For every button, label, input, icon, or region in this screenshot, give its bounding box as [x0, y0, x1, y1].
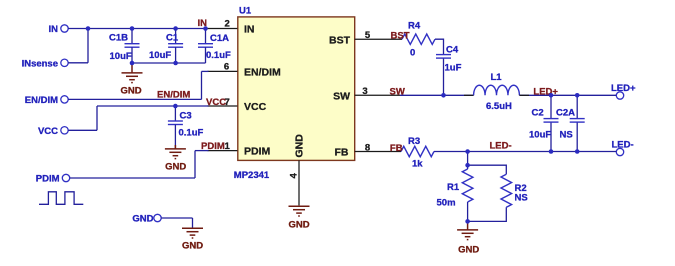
port LED- — [612, 139, 634, 155]
wire EN/DIM to pin 6 — [202, 70, 209, 72]
op-amp U1 — [234, 5, 355, 181]
ground below C1B — [120, 63, 142, 97]
svg-text:C4: C4 — [446, 45, 459, 56]
svg-text:BST: BST — [391, 31, 410, 42]
wire IN port to junction — [68, 28, 88, 30]
svg-text:SW: SW — [333, 90, 350, 102]
pin 8 stub — [355, 151, 401, 153]
ground below C3 — [165, 145, 186, 172]
svg-text:GND: GND — [288, 219, 309, 230]
svg-text:4: 4 — [289, 173, 300, 179]
svg-text:1uF: 1uF — [445, 63, 462, 74]
port PDIM — [36, 174, 70, 185]
svg-text:0.1uF: 0.1uF — [206, 50, 231, 61]
junction node C1A top — [203, 26, 208, 31]
pin 5 stub — [355, 38, 402, 40]
capacitor C1 — [166, 29, 183, 64]
svg-text:BST: BST — [329, 34, 351, 46]
svg-text:C3: C3 — [180, 110, 192, 121]
pulse waveform symbol — [39, 192, 83, 205]
svg-text:EN/DIM: EN/DIM — [157, 90, 190, 101]
svg-text:50m: 50m — [437, 198, 456, 209]
junction node R1 R2 top — [465, 163, 470, 168]
svg-text:PDIM: PDIM — [36, 174, 60, 185]
junction node C1 top — [173, 26, 178, 31]
svg-text:C1B: C1B — [109, 33, 128, 44]
resistor R4 — [402, 21, 435, 45]
capacitor C1A — [198, 29, 229, 64]
svg-text:SW: SW — [390, 87, 405, 98]
wire SW rail to L1 — [400, 94, 474, 96]
inductor L1 — [464, 72, 529, 95]
wire PDIM horizontal — [70, 177, 195, 179]
wire branch to R2 top — [468, 165, 507, 174]
ground below R1 R2 — [457, 221, 479, 255]
wire GND port vertical — [192, 218, 194, 228]
wire R1 bottom lead — [467, 202, 469, 221]
junction node C2 bottom — [549, 149, 554, 154]
svg-text:C2A: C2A — [556, 108, 575, 119]
wire VCC vertical — [96, 106, 98, 130]
capacitor C2A — [556, 108, 585, 123]
svg-text:R4: R4 — [408, 21, 421, 32]
svg-text:VCC: VCC — [38, 126, 58, 137]
pin 3 stub — [355, 94, 400, 96]
svg-text:VCC: VCC — [244, 101, 267, 113]
svg-text:6.5uH: 6.5uH — [486, 101, 512, 112]
port LED+ — [611, 83, 636, 99]
svg-text:0: 0 — [410, 48, 415, 59]
junction node C4 SW — [441, 93, 446, 98]
junction node C1B top — [130, 26, 135, 31]
wire capacitor bottom rail — [132, 62, 206, 64]
wire GND port horizontal — [161, 217, 192, 219]
wire C4 bottom to SW rail — [443, 58, 445, 95]
svg-text:2: 2 — [225, 18, 230, 29]
svg-text:L1: L1 — [491, 72, 503, 83]
resistor R1 — [447, 169, 473, 202]
junction node C2A top — [575, 93, 580, 98]
capacitor C1B — [109, 29, 140, 64]
svg-text:EN/DIM: EN/DIM — [244, 67, 281, 79]
svg-text:GND: GND — [458, 244, 479, 255]
wire PDIM vertical — [194, 151, 196, 178]
pin 1 stub — [208, 150, 238, 152]
pin 6 stub — [208, 70, 238, 72]
svg-text:LED+: LED+ — [533, 87, 558, 98]
port INsense — [22, 59, 69, 70]
svg-text:LED-: LED- — [490, 141, 512, 152]
junction node C1 bottom — [173, 61, 178, 66]
wire L1 to LED+ port — [519, 94, 616, 96]
wire C2A top lead — [576, 95, 578, 118]
wire VCC to pin 7 — [97, 105, 209, 107]
svg-text:C2: C2 — [532, 108, 544, 119]
junction node IN port — [86, 26, 91, 31]
junction node C1B bottom — [130, 61, 135, 66]
svg-text:GND: GND — [132, 214, 153, 225]
svg-text:R1: R1 — [447, 182, 460, 193]
pin 4 stub — [298, 160, 300, 205]
junction node C3 top — [173, 104, 178, 109]
pin 7 stub — [208, 105, 238, 107]
wire C2 top lead — [550, 95, 552, 118]
capacitor C4 — [436, 45, 459, 59]
svg-text:PDIM: PDIM — [201, 141, 225, 152]
wire PDIM to pin 1 — [195, 150, 209, 152]
ground at GND port — [182, 228, 203, 251]
svg-text:NS: NS — [515, 193, 528, 204]
resistor R3 — [401, 136, 434, 157]
svg-text:INsense: INsense — [22, 59, 58, 70]
svg-text:1k: 1k — [412, 159, 423, 170]
svg-text:FB: FB — [390, 143, 403, 154]
svg-text:C1A: C1A — [210, 33, 229, 44]
svg-text:LED+: LED+ — [611, 83, 636, 94]
wire R2 bottom lead — [468, 207, 507, 221]
junction node C2 top — [549, 93, 554, 98]
svg-text:10uF: 10uF — [110, 51, 132, 62]
svg-text:PDIM: PDIM — [244, 146, 271, 158]
wire LED- rail — [434, 151, 616, 153]
wire IN top rail — [88, 28, 206, 30]
capacitor C3 — [168, 106, 192, 149]
svg-text:GND: GND — [120, 86, 141, 97]
port EN/DIM — [25, 95, 68, 106]
ground below U1 pin 4 — [288, 206, 309, 230]
svg-text:GND: GND — [182, 240, 203, 251]
svg-text:C1: C1 — [166, 33, 179, 44]
svg-text:MP2341: MP2341 — [234, 170, 270, 181]
port VCC — [38, 126, 68, 137]
wire C2A bottom lead — [576, 122, 578, 151]
wire EN/DIM vertical — [201, 71, 203, 99]
wire EN/DIM horizontal — [68, 98, 201, 100]
port IN — [49, 24, 69, 35]
svg-text:IN: IN — [49, 24, 59, 35]
resistor R2 — [501, 174, 527, 207]
junction node FB LED- — [465, 149, 470, 154]
svg-text:GND: GND — [294, 134, 306, 158]
wire R4 to C4 top — [435, 39, 444, 54]
port GND — [132, 214, 161, 225]
svg-text:GND: GND — [165, 161, 186, 172]
svg-text:FB: FB — [335, 146, 349, 158]
wire C2 bottom lead — [550, 122, 552, 151]
wire junction down to INsense — [87, 29, 89, 63]
svg-text:R3: R3 — [408, 136, 420, 147]
junction node R1 R2 bottom — [465, 219, 470, 224]
svg-text:VCC: VCC — [206, 97, 226, 108]
pin 2 stub — [206, 28, 238, 30]
capacitor C2 — [532, 108, 559, 123]
svg-text:10uF: 10uF — [529, 129, 551, 140]
junction node C2A bottom — [575, 149, 580, 154]
svg-text:10uF: 10uF — [149, 50, 171, 61]
svg-text:EN/DIM: EN/DIM — [25, 95, 58, 106]
svg-text:NS: NS — [560, 129, 573, 140]
svg-text:IN: IN — [244, 24, 255, 36]
wire INsense port — [68, 62, 88, 64]
svg-text:0.1uF: 0.1uF — [179, 127, 204, 138]
wire FB junction down — [467, 152, 469, 170]
wire VCC horizontal — [68, 129, 97, 131]
svg-text:U1: U1 — [239, 5, 252, 16]
